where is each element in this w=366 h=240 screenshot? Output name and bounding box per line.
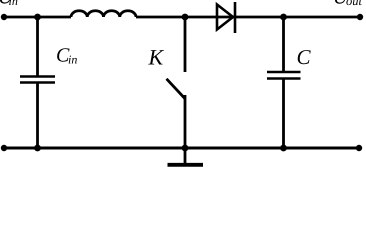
svg-text:in: in	[9, 0, 18, 8]
svg-text:out: out	[346, 0, 363, 8]
svg-text:C: C	[297, 45, 312, 69]
svg-text:K: K	[148, 44, 165, 69]
svg-text:in: in	[68, 52, 77, 66]
